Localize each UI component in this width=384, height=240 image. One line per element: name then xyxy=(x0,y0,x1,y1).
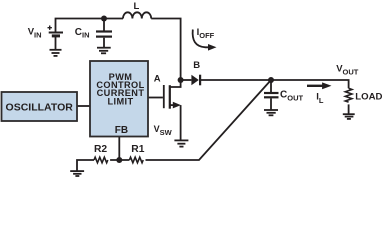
ground VSW xyxy=(174,140,188,146)
svg-text:COUT: COUT xyxy=(280,90,303,103)
transistor M1 source lead xyxy=(170,104,174,106)
svg-text:R2: R2 xyxy=(94,144,107,155)
wire R1 to diagonal feedback xyxy=(146,80,272,160)
svg-text:B: B xyxy=(193,60,200,71)
svg-text:L: L xyxy=(134,1,140,12)
resistor R1 zigzag xyxy=(129,157,143,163)
wire oscillator to pwm box xyxy=(77,105,90,107)
capacitor CIN xyxy=(96,19,112,48)
svg-text:FB: FB xyxy=(115,125,128,136)
diode B triangle xyxy=(191,75,198,85)
node FB dot xyxy=(116,157,122,163)
wire inductor to switch node vertical xyxy=(151,19,180,88)
svg-text:VOUT: VOUT xyxy=(336,64,359,77)
diode B cathode bar xyxy=(199,75,201,86)
transistor M1 gate bar xyxy=(163,85,165,108)
inductor L xyxy=(123,12,151,18)
wire gate lead from pwm box xyxy=(148,97,163,99)
svg-text:IOFF: IOFF xyxy=(197,27,215,40)
wire source to ground VSW xyxy=(180,105,182,140)
svg-text:LOAD: LOAD xyxy=(355,92,382,103)
transistor M1 channel bar xyxy=(169,85,171,109)
svg-text:VIN: VIN xyxy=(28,27,42,40)
node junction dot top rail CIN xyxy=(101,16,107,22)
IOFF arrowhead xyxy=(208,44,217,51)
wire LOAD to ground xyxy=(348,104,350,114)
ground LOAD xyxy=(343,114,355,119)
oscillator box xyxy=(2,92,78,121)
transistor source arrowhead xyxy=(173,102,181,109)
IL arrow shaft xyxy=(307,85,323,87)
capacitor COUT xyxy=(264,80,279,110)
ground COUT xyxy=(264,110,278,115)
node VOUT dot xyxy=(268,77,274,83)
svg-text:VSW: VSW xyxy=(154,124,173,137)
IOFF curved arrow xyxy=(193,30,209,48)
resistor R2 zigzag xyxy=(94,157,108,163)
svg-text:R1: R1 xyxy=(131,144,144,155)
battery VIN xyxy=(48,26,64,50)
IL arrowhead xyxy=(322,82,331,89)
wire diode anode xyxy=(181,79,192,81)
ground battery xyxy=(50,50,62,56)
wire R2 to R1 xyxy=(110,159,129,161)
wire bottom left to ground xyxy=(77,160,94,171)
svg-text:IL: IL xyxy=(316,92,324,105)
svg-text:A: A xyxy=(154,74,161,85)
svg-text:CIN: CIN xyxy=(75,27,90,40)
node A switch node dot xyxy=(178,77,184,83)
pwm control current limit box xyxy=(90,61,148,137)
svg-text:OSCILLATOR: OSCILLATOR xyxy=(6,101,74,113)
wire FB pin down xyxy=(118,137,120,161)
wire diode to output corner xyxy=(201,80,349,88)
svg-text:LIMIT: LIMIT xyxy=(108,96,134,106)
ground CIN xyxy=(97,48,111,54)
ground bottom left xyxy=(70,171,84,176)
resistor LOAD zigzag xyxy=(345,88,352,102)
wire top rail from battery to inductor xyxy=(56,19,124,33)
